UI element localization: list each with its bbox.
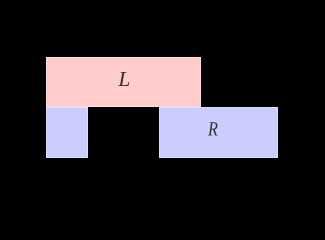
small blue block (bottom-left) <box>46 107 88 158</box>
label R <box>208 122 218 135</box>
rectangle L (pink block) <box>46 57 201 107</box>
label L <box>118 72 129 86</box>
rectangle R (blue block) <box>159 107 278 158</box>
